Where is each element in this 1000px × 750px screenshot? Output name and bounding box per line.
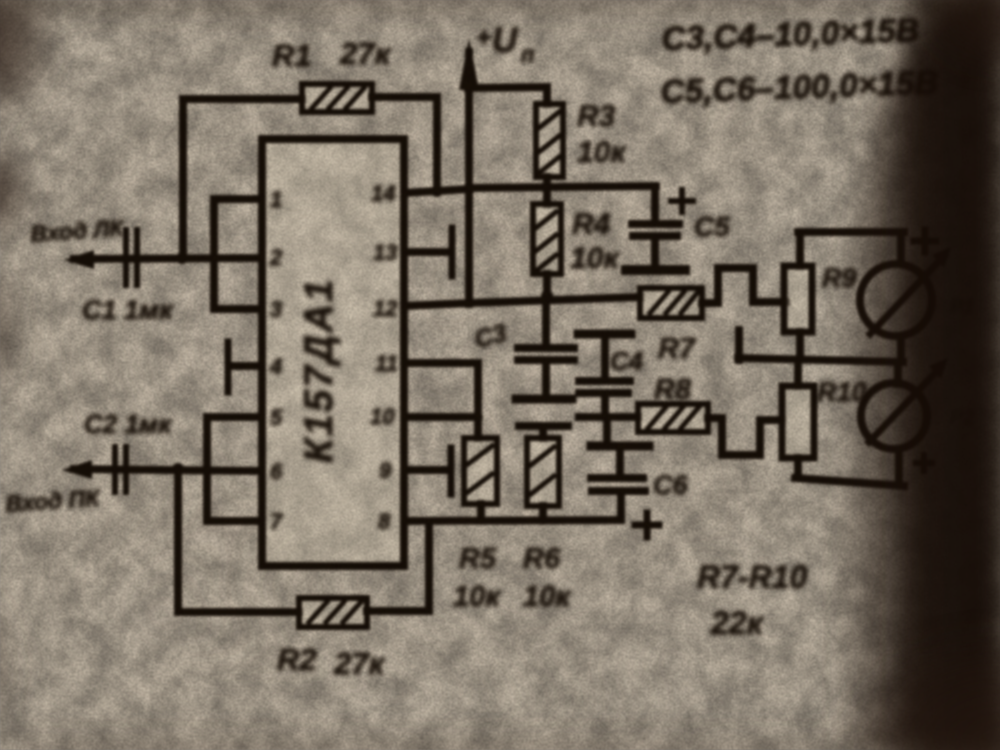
resistor R4 bbox=[533, 204, 561, 274]
wire R8 left lead bbox=[579, 413, 638, 421]
resistor R9 bbox=[784, 266, 812, 332]
terminator bar C4 top bbox=[578, 330, 631, 339]
resistor R6 bbox=[527, 438, 559, 506]
wire R10 bottom lead bbox=[794, 458, 802, 478]
resistor R7 bbox=[640, 288, 702, 318]
wire input PK line bbox=[74, 469, 262, 471]
wire input LK line bbox=[74, 258, 262, 259]
meter P1 bbox=[860, 264, 932, 336]
node rail/pin14 bbox=[463, 183, 475, 195]
wire R10 top lead bbox=[794, 362, 802, 386]
wire pin 14 stub bbox=[404, 189, 469, 193]
terminator bar pin 4 bbox=[225, 342, 232, 392]
capacitor C3 bbox=[518, 344, 574, 352]
bottom edge strip bbox=[0, 740, 1000, 750]
resistor R8 bbox=[638, 404, 708, 432]
capacitor C3 top lead bbox=[542, 296, 550, 345]
node C4/R8 bbox=[600, 412, 610, 422]
wire pin11-pin10-R5 vertical bbox=[474, 363, 482, 438]
terminator bar R6 top bbox=[519, 422, 568, 430]
wire R9 top lead bbox=[796, 232, 804, 266]
plus sign C5 bbox=[671, 190, 693, 212]
terminator bar C5 bbox=[626, 265, 685, 275]
wire pin14 row to C5 bbox=[469, 186, 656, 188]
wire C6 bottom lead bbox=[617, 495, 625, 520]
wire R10 block bottom bbox=[795, 478, 904, 486]
label P1 (in shadow) bbox=[950, 296, 974, 429]
wire R3 bottom / R4 top bbox=[543, 177, 551, 204]
wire pin 13 stub bbox=[404, 248, 446, 256]
terminator bar pin 9 bbox=[448, 448, 455, 494]
wire R6 top stem bbox=[539, 428, 547, 438]
resistor R2 bbox=[299, 598, 367, 627]
wire C4 stem bbox=[601, 338, 609, 377]
wire pin 8 bottom rail bbox=[404, 520, 621, 521]
arrow +Un bbox=[459, 38, 479, 90]
node input LK / R1 bbox=[176, 252, 188, 264]
wire C3 bottom lead bbox=[542, 364, 550, 395]
resistor R5 bbox=[464, 438, 497, 504]
needle P1 bbox=[870, 256, 944, 334]
terminator bar C6 top bbox=[591, 442, 649, 451]
wire R2 right lead up to pin 8 bbox=[367, 521, 429, 611]
power rail +Un vertical bbox=[465, 52, 473, 304]
arrow input PK bbox=[62, 460, 92, 479]
wire top to R3 bbox=[469, 87, 547, 88]
capacitor C5 stem bbox=[651, 186, 659, 221]
wire R1 right lead down to pin 14 net bbox=[372, 97, 437, 191]
meter P2 bbox=[861, 383, 927, 449]
wire C6 upper stem bbox=[603, 417, 611, 444]
wire stub above mid rail bbox=[735, 330, 743, 360]
wire C4 bottom lead bbox=[601, 397, 609, 417]
wire bracket pins 5-7 bbox=[207, 417, 262, 521]
resistor R3 bbox=[536, 104, 563, 177]
node rail/top wire bbox=[463, 82, 475, 94]
needle P2 bbox=[869, 367, 941, 442]
ink: circuit drawing bbox=[62, 38, 951, 627]
plus P2 mark bbox=[916, 455, 932, 471]
wire R3 top lead bbox=[543, 87, 551, 104]
resistor R10 bbox=[782, 386, 814, 458]
wire pin 4 stub bbox=[231, 362, 262, 370]
node junction R1/pin14 bbox=[431, 185, 443, 197]
node rail end pin12 bbox=[465, 298, 475, 308]
node R3/R4 bbox=[541, 181, 553, 193]
terminator bar pin 13 bbox=[449, 228, 456, 276]
terminator bar C3 bbox=[516, 395, 572, 404]
top edge strip bbox=[0, 0, 1000, 10]
plus sign C6 bbox=[635, 513, 659, 537]
node R4 / pin12 wire bbox=[541, 290, 553, 302]
wire pin 11 stub bbox=[404, 359, 478, 367]
wire R7 right staircase to R9 bbox=[702, 268, 786, 303]
wire bracket pins 1-3 bbox=[214, 199, 262, 309]
meter P1 top lead bbox=[897, 232, 905, 263]
top-left corner blob bbox=[0, 0, 56, 125]
capacitor C4 bbox=[579, 377, 630, 385]
wire R8 right staircase to R10 bbox=[708, 418, 782, 455]
right dark band bbox=[832, 0, 1000, 750]
node input PK / R2 bbox=[172, 463, 184, 475]
meter P2 bottom lead bbox=[895, 449, 903, 483]
capacitor C5 bbox=[632, 220, 679, 228]
wire R5 bottom lead bbox=[477, 504, 485, 520]
node bottom rail R5 bbox=[476, 515, 486, 525]
wire R4 bottom lead bbox=[543, 274, 551, 299]
meter P1 bottom lead bbox=[897, 336, 905, 361]
wire C5 bottom lead bbox=[651, 240, 659, 265]
wire R9 bottom lead bbox=[796, 332, 804, 357]
top-right corner bbox=[920, 0, 1000, 70]
capacitor C2 bbox=[115, 447, 126, 492]
wire R9 block top bbox=[798, 228, 904, 236]
meter P2 top lead bbox=[894, 363, 902, 384]
wire shared mid rail bbox=[738, 358, 903, 362]
node bottom rail R6 bbox=[538, 515, 548, 525]
wire R1 left lead to input node bbox=[183, 99, 302, 258]
wire pin 10 stub bbox=[404, 413, 478, 421]
capacitor C1 bbox=[126, 230, 137, 285]
plus P1 bbox=[914, 230, 936, 252]
capacitor C6 bbox=[591, 474, 643, 482]
wire R2 left lead bbox=[178, 469, 299, 612]
arrow input LK bbox=[64, 250, 94, 269]
resistor R1 bbox=[302, 84, 372, 112]
wire pin 12 row to R7 bbox=[404, 297, 640, 306]
bottom-right corner bbox=[840, 630, 1000, 750]
IC U1 box К157ДА1 bbox=[262, 139, 404, 566]
wire pin 9 stub bbox=[404, 466, 446, 474]
wire C6 mid stem bbox=[616, 450, 624, 475]
node pin10/R5 bbox=[473, 412, 483, 422]
wire R6 bottom lead bbox=[539, 506, 547, 520]
